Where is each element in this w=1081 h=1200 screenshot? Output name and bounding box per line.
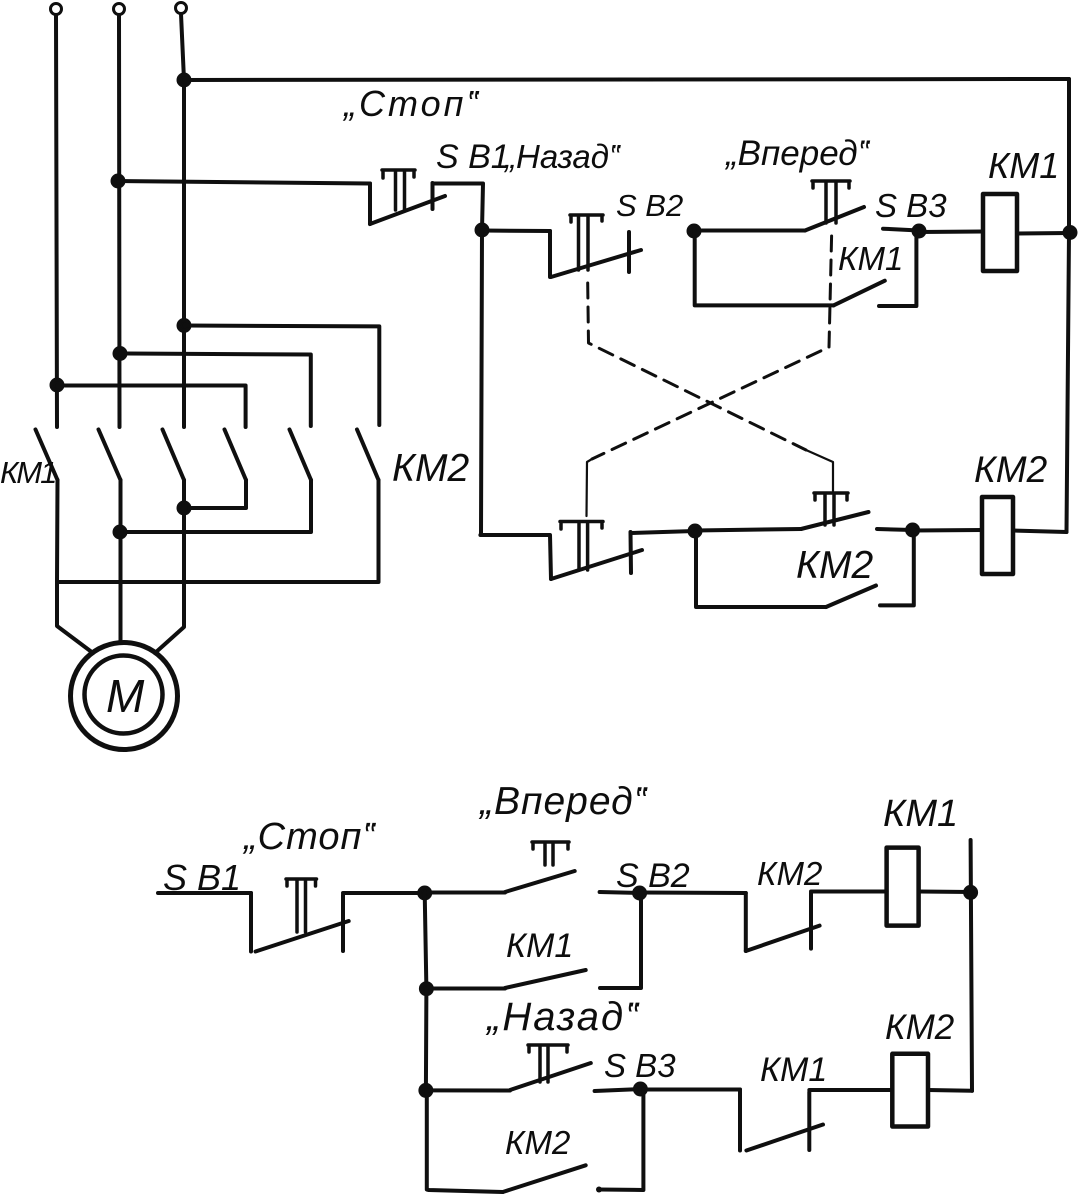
wire to node E [877,529,913,530]
wire node H down [424,989,429,1091]
svg-text:КМ1: КМ1 [988,145,1059,186]
wire node B to SB3 [694,229,805,233]
node C [914,226,925,237]
svg-text:КМ2: КМ2 [392,447,469,490]
node A [477,225,488,236]
node L3 branch junction [179,320,190,331]
node I [420,1085,431,1096]
svg-text:КМ2: КМ2 [974,449,1048,490]
wire node G to KM2 NC [641,891,746,896]
wire right rail (bottom) [971,840,972,1091]
wire SB1 feed (bottom) [158,891,251,895]
node J [635,1084,646,1095]
node right rail junction [1065,227,1076,238]
mechanical link SB2 dashed [588,283,806,450]
svg-text:„Вперед‟: „Вперед‟ [478,780,648,823]
interlock contact KM1 NC (bottom) [740,1090,823,1151]
svg-text:„Стоп‟: „Стоп‟ [242,816,376,858]
node right rail (bottom) [965,887,976,898]
contactor main contact KM2.3 [357,430,379,481]
svg-text:S B3: S B3 [604,1047,676,1084]
wire KM2.2 output [120,480,311,532]
wire KM1 NC to coil KM2 [809,1088,892,1092]
svg-text:КМ2: КМ2 [885,1008,954,1047]
wire KM2.1 output [184,480,246,508]
wire SB1 to node A [433,184,484,231]
node phase B join [115,527,126,538]
auxiliary contact KM1 (self-hold) [695,231,917,306]
coil KM1 [983,194,1017,271]
contactor main contact KM1.2 [99,430,121,481]
wire right rail [1067,79,1070,532]
wire L3 branch to KM2 contact [184,326,379,426]
wire SB1 to node F [343,891,425,895]
wire KM2 NC to coil KM1 [811,890,887,894]
node E [907,525,918,536]
node control tap on L2 [113,176,124,187]
mechanical link SB3 dashed [592,236,832,459]
wire left rail [481,230,482,535]
contactor main contact KM1.3 [163,430,185,481]
svg-text:КМ2: КМ2 [796,544,873,587]
wire motor lead W [155,480,184,653]
wire L1 branch to KM2 contact [57,386,246,428]
wire top control bus [184,79,1069,80]
pushbutton SB2 NC (in KM1 rung) [550,215,641,277]
wire node E to coil KM2 [913,528,982,533]
coil KM2 [982,497,1013,574]
wire coil KM2 to right rail [1013,531,1067,533]
node F [419,888,430,899]
wire L2 vertical [117,15,122,427]
motor M inner circle [85,656,163,734]
wire to node D [631,531,695,533]
contactor main contact KM1.1 [36,430,58,481]
wire SB3 to node C [883,229,919,231]
wire L2 branch to KM2 contact [120,354,311,427]
svg-text:„Назад‟: „Назад‟ [503,138,621,175]
svg-text:S B2: S B2 [616,857,690,895]
wire node A to SB2 [482,229,550,234]
node D [690,526,701,537]
auxiliary contact KM1 (bottom self-hold) [426,893,641,989]
wire SB3 to node J [595,1089,641,1091]
wire motor lead V [119,480,123,643]
svg-text:КМ1: КМ1 [0,455,55,490]
contactor main contact KM2.1 [225,430,247,481]
svg-text:S B1: S B1 [436,138,510,176]
pushbutton SB3 NO backward (bottom) [426,1045,591,1091]
wire node F down [425,893,427,989]
node H [421,983,432,994]
wire node C to coil KM1 [919,230,983,235]
wire KM2.3 output [57,480,379,582]
interlock contact KM2 NC (bottom) [746,893,820,951]
svg-text:М: М [106,670,145,722]
node G [634,888,645,899]
auxiliary contact KM2 (self-hold) [696,531,914,607]
node L3 top bus junction [179,75,190,86]
svg-text:КМ2: КМ2 [505,1124,570,1161]
wire coil KM2 to right rail (bottom) [928,1088,972,1093]
pushbutton SB3 NC (in KM2 rung) [480,522,642,580]
wire coil KM1 to right rail (bottom) [919,890,971,895]
wire node J to KM1 NC [640,1088,740,1092]
wire L3 vertical [181,14,184,427]
node L1 branch junction [52,380,63,391]
svg-text:S B2: S B2 [616,188,683,223]
terminal L2 [114,4,125,15]
terminal L1 [51,4,62,15]
svg-text:КМ2: КМ2 [757,855,822,892]
wire motor lead U [57,480,93,653]
wire control rung 1 feed [118,181,370,184]
coil KM1 (bottom) [887,848,919,926]
wire coil KM1 to right rail [1017,231,1069,236]
wire L1 vertical [56,15,57,427]
svg-text:КМ1: КМ1 [760,1051,827,1089]
svg-text:„Вперед‟: „Вперед‟ [724,134,871,173]
svg-text:КМ1: КМ1 [883,793,958,835]
svg-text:„Назад‟: „Назад‟ [485,995,640,1039]
pushbutton SB1 NC stop [370,170,445,224]
wire SB2 to node G [600,892,640,893]
auxiliary contact KM2 (bottom self-hold) [427,1089,644,1193]
terminal L3 [176,3,187,14]
svg-text:S B3: S B3 [875,187,947,224]
pushbutton SB3 NO forward [805,181,864,231]
coil KM2 (bottom) [892,1054,928,1127]
pushbutton SB2 NO forward (bottom) [425,842,575,893]
node L2 branch junction [115,348,126,359]
contactor main contact KM2.2 [290,430,312,481]
svg-text:КМ1: КМ1 [838,240,903,277]
pushbutton SB1 NC stop (bottom) [251,879,349,952]
motor M outer circle [71,643,178,750]
svg-text:КМ1: КМ1 [506,927,573,965]
svg-text:„Стоп‟: „Стоп‟ [342,83,481,124]
node B [689,226,700,237]
node phase A join [179,503,190,514]
pushbutton SB2 NO backward [695,493,869,531]
